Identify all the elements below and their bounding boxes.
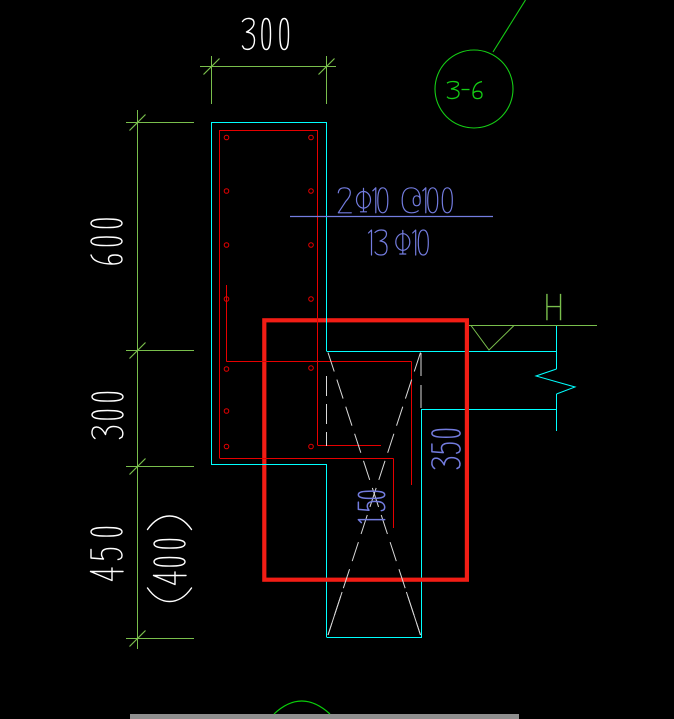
- gray bar: [130, 714, 519, 719]
- hidden edge right: [420, 353, 422, 408]
- stirrup top edge: [220, 130, 318, 132]
- upper column left edge: [211, 122, 213, 465]
- beam top line: [327, 351, 558, 353]
- tick left y350: [130, 343, 146, 359]
- detail circle 3-6: [435, 50, 513, 128]
- left vertical dimension line: [137, 110, 139, 649]
- tick top-left: [204, 59, 220, 75]
- text 300 (top): [243, 18, 289, 49]
- lower column right edge: [421, 409, 423, 637]
- top extension line right: [326, 56, 328, 104]
- leader line: [493, 0, 526, 52]
- tick left y638: [130, 631, 146, 647]
- extension line at y=350: [126, 350, 194, 352]
- text 600 (left, rotated): [91, 219, 122, 264]
- text 450 (left, rotated): [91, 528, 124, 581]
- cross diagonal 2 solid tail: [328, 592, 342, 635]
- text 350 (rotated): [432, 429, 460, 468]
- rebar left column: [224, 135, 229, 140]
- top dimension line 300: [200, 66, 336, 68]
- text 300 (left, rotated): [92, 393, 123, 439]
- rebar circles: [224, 135, 313, 449]
- text 3-6: [447, 82, 482, 99]
- tick left y122: [130, 115, 146, 131]
- stirrup left edge: [219, 130, 221, 458]
- text (400) (left, rotated): [148, 516, 192, 602]
- bent bar L1 down leg: [411, 362, 413, 486]
- tick left y466: [130, 459, 146, 475]
- rebar right column: [309, 135, 314, 140]
- cross diagonal 1 solid tail: [406, 592, 420, 635]
- top extension line left: [211, 56, 213, 104]
- cross diagonal 1: [328, 353, 421, 636]
- upper column top edge: [211, 122, 327, 124]
- bent bar L1 horizontal: [227, 361, 412, 363]
- upper column right edge: [326, 122, 328, 351]
- beam break vertical bottom: [556, 394, 558, 431]
- letter H: [547, 294, 561, 320]
- lower column bottom edge: [327, 637, 423, 639]
- text 150 (rotated): [358, 491, 384, 522]
- extension line at y=638: [126, 638, 194, 640]
- text 13 phi 10: [369, 230, 429, 255]
- extension line at y=466: [126, 466, 194, 468]
- annotation underline: [290, 216, 493, 218]
- stirrup right edge: [317, 130, 319, 445]
- level line: [469, 325, 597, 327]
- beam break vertical top: [556, 326, 558, 369]
- upper column bottom edge: [211, 464, 327, 466]
- bar line A: [318, 445, 382, 447]
- tick top-right: [319, 59, 335, 75]
- bar line B vertical: [393, 459, 395, 529]
- level triangle: [471, 326, 514, 351]
- highlight box (thick red): [264, 320, 467, 579]
- bent bar L1 vertical stub: [226, 285, 228, 362]
- lower column left edge: [326, 465, 328, 637]
- green arc: [274, 701, 330, 714]
- bar line B horizontal: [220, 458, 394, 460]
- hidden edge left: [326, 376, 328, 446]
- text 2 phi 10 @ 100: [338, 188, 452, 213]
- beam bottom line: [422, 409, 558, 411]
- cross diagonal 2: [328, 353, 421, 636]
- extension line at y=122: [126, 122, 194, 124]
- beam break zigzag: [536, 369, 575, 394]
